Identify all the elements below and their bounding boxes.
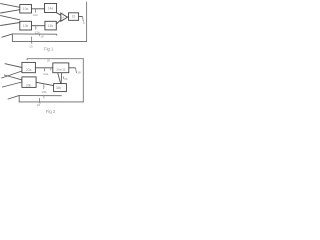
svg-text:24: 24 bbox=[37, 103, 41, 107]
wire combiner to box 16 bbox=[67, 16, 68, 18]
frame right border Fig1 bbox=[86, 2, 88, 41]
box 30a/32 wide bbox=[53, 63, 69, 73]
svg-text:38: 38 bbox=[77, 71, 81, 75]
wire antenna feed line lower (Fig2 channel B) bbox=[2, 82, 22, 87]
box 20a bbox=[22, 62, 36, 72]
box 10a bbox=[20, 5, 32, 14]
leader tick on substrate Fig2 bbox=[43, 96, 45, 98]
box 20b bbox=[22, 77, 36, 88]
wire A between 10a and 14a bbox=[32, 8, 45, 10]
box 16 bbox=[69, 13, 79, 20]
substrate bottom line Fig1 bbox=[12, 40, 86, 42]
substrate top line Fig1 bbox=[12, 34, 57, 35]
box 14a bbox=[45, 4, 57, 13]
output wire Fig1 bbox=[79, 16, 83, 18]
wire antenna feed line lower (Fig1 channel B) bbox=[1, 23, 20, 26]
box 14b bbox=[45, 21, 56, 30]
svg-text:Fig 1: Fig 1 bbox=[44, 47, 54, 52]
wire B between 10b and 14b bbox=[32, 25, 45, 27]
leader squiggle 20 bbox=[30, 37, 33, 44]
leader tick on substrate bbox=[39, 34, 41, 36]
svg-text:16: 16 bbox=[72, 15, 76, 19]
leader tick 2 on wire D bbox=[50, 68, 52, 71]
wire antenna feed line lower (Fig2 channel A) bbox=[2, 71, 22, 78]
svg-text:22a: 22a bbox=[43, 72, 48, 76]
svg-text:33: 33 bbox=[64, 77, 68, 81]
box 10b bbox=[20, 21, 32, 30]
svg-text:26: 26 bbox=[47, 59, 51, 63]
wire 30a down to 34b right bbox=[60, 73, 63, 83]
svg-text:10b: 10b bbox=[23, 24, 29, 28]
wire antenna feed line upper (Fig1 channel A) bbox=[1, 4, 20, 8]
svg-text:22b: 22b bbox=[42, 90, 47, 94]
leader tick 12a bbox=[35, 9, 37, 13]
svg-text:18: 18 bbox=[40, 35, 44, 39]
wire antenna feed line upper (Fig2 channel B) bbox=[4, 75, 22, 80]
leader squiggle output C bbox=[82, 17, 83, 22]
wire diagonal into substrate corner Fig2 bbox=[8, 96, 19, 99]
leader tick 22b bbox=[43, 85, 45, 89]
frame top border Fig2 bbox=[27, 59, 83, 60]
svg-text:Fig 2: Fig 2 bbox=[46, 109, 56, 114]
svg-text:12a: 12a bbox=[33, 13, 38, 17]
svg-text:20b: 20b bbox=[26, 83, 32, 87]
svg-text:14b: 14b bbox=[48, 24, 54, 28]
wire 14b to combiner bbox=[56, 20, 61, 24]
svg-text:20a: 20a bbox=[26, 68, 32, 72]
wire antenna feed line upper (Fig2 channel A) bbox=[5, 64, 22, 68]
wire antenna feed line upper (Fig1 channel B) bbox=[1, 16, 20, 20]
wire D between 20a and 30a bbox=[35, 67, 52, 69]
leader tick 22a bbox=[43, 68, 45, 71]
leader tick 33 bbox=[62, 76, 65, 79]
combiner triangle 14 bbox=[61, 13, 68, 21]
svg-text:14a: 14a bbox=[48, 6, 54, 10]
wire 30a down to 34b left bbox=[58, 73, 61, 83]
leader squiggle 24 bbox=[38, 98, 41, 103]
substrate top line Fig2 bbox=[19, 95, 61, 97]
substrate left edge Fig1 bbox=[11, 34, 13, 42]
wire E between 20b and 34b bbox=[36, 82, 54, 85]
leader squiggle output Fig2 bbox=[75, 68, 76, 73]
svg-text:10a: 10a bbox=[23, 7, 29, 11]
wire 14a to combiner bbox=[57, 13, 61, 16]
wire diagonal into substrate corner bbox=[2, 34, 12, 37]
frame right border Fig2 bbox=[82, 59, 84, 102]
output wire Fig2 bbox=[69, 67, 75, 69]
svg-text:34b: 34b bbox=[56, 86, 62, 90]
substrate bottom line Fig2 bbox=[19, 101, 83, 103]
svg-text:14: 14 bbox=[61, 15, 65, 19]
svg-text:30a/32: 30a/32 bbox=[56, 67, 66, 71]
leader tick 12b bbox=[35, 26, 37, 30]
wire antenna feed line lower (Fig1 channel A) bbox=[1, 10, 20, 13]
substrate left edge Fig2 bbox=[18, 96, 20, 102]
svg-text:20: 20 bbox=[29, 44, 33, 48]
box 34b bbox=[54, 84, 67, 92]
